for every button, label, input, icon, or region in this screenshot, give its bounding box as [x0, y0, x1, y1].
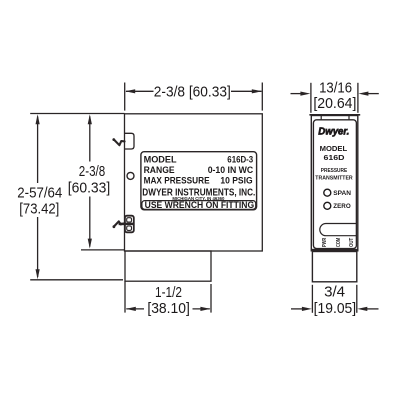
svg-text:0-10 IN WC: 0-10 IN WC	[208, 165, 254, 175]
side label plate	[313, 120, 356, 249]
nameplate	[141, 152, 257, 210]
svg-text:SPAN: SPAN	[333, 190, 351, 197]
svg-text:[73.42]: [73.42]	[19, 202, 59, 218]
svg-text:USE WRENCH ON FITTING: USE WRENCH ON FITTING	[145, 199, 255, 210]
svg-text:[38.10]: [38.10]	[147, 301, 190, 317]
svg-text:616D-3: 616D-3	[227, 154, 253, 164]
svg-text:1-1/2: 1-1/2	[155, 285, 182, 301]
svg-text:[60.33]: [60.33]	[68, 180, 111, 196]
side base	[312, 252, 356, 282]
svg-text:RANGE: RANGE	[144, 165, 175, 175]
svg-text:OUT: OUT	[349, 238, 355, 247]
nameplate text MODEL 616D-3	[142, 154, 255, 210]
svg-text:MODEL: MODEL	[144, 154, 177, 164]
SPAN adjustment	[324, 189, 331, 196]
bottom fitting squiggle	[113, 221, 125, 228]
side bottom bar	[312, 249, 358, 252]
svg-text:TRANSMITTER: TRANSMITTER	[315, 175, 352, 181]
dim: side width extension lines	[311, 83, 358, 113]
top fitting squiggle	[112, 138, 124, 145]
dim: side width line with outside arrows	[291, 92, 379, 96]
front view base	[125, 251, 211, 281]
svg-text:3/4: 3/4	[324, 285, 345, 301]
dim: side base width line with outside arrows	[291, 307, 379, 311]
wrench note box	[142, 201, 256, 210]
dim: base width line with arrows	[126, 307, 211, 311]
dim: side base width extension lines	[312, 285, 356, 313]
dim: front width line with arrows	[125, 89, 262, 93]
bottom fitting	[119, 216, 134, 233]
ZERO adjustment	[324, 202, 331, 209]
svg-text:ZERO: ZERO	[333, 203, 350, 210]
svg-text:Dwyer.: Dwyer.	[318, 126, 349, 137]
svg-text:[20.64]: [20.64]	[313, 96, 356, 112]
svg-text:MAX PRESSURE: MAX PRESSURE	[144, 175, 210, 185]
svg-text:616D: 616D	[324, 153, 346, 162]
svg-text:[19.05]: [19.05]	[314, 301, 357, 317]
side view top cap	[309, 114, 360, 116]
dim: overall height top extension line	[30, 113, 124, 115]
side view cap ticks	[321, 115, 349, 120]
top fitting tab	[125, 133, 134, 149]
mounting hole	[127, 172, 134, 179]
svg-text:2-57/64: 2-57/64	[17, 186, 62, 202]
svg-text:PWR: PWR	[322, 237, 328, 247]
side view body	[311, 116, 358, 251]
svg-text:MODEL: MODEL	[320, 144, 348, 153]
svg-text:13/16: 13/16	[319, 80, 352, 96]
dim: body height extension stub	[81, 249, 125, 251]
svg-text:2-3/8 [60.33]: 2-3/8 [60.33]	[154, 85, 231, 101]
dim: body height line with arrows	[88, 114, 92, 248]
svg-text:10 PSIG: 10 PSIG	[220, 175, 252, 185]
terminal pocket	[320, 224, 357, 236]
dim: base width extension lines	[125, 281, 211, 312]
dim: overall height line with arrows	[36, 114, 40, 279]
dim: front width extension lines	[125, 83, 263, 111]
front view body	[125, 114, 263, 251]
svg-text:PRESSURE: PRESSURE	[321, 168, 348, 174]
dim: overall height bottom extension line	[30, 279, 123, 281]
svg-text:2-3/8: 2-3/8	[79, 164, 106, 180]
svg-text:COM: COM	[336, 238, 342, 247]
